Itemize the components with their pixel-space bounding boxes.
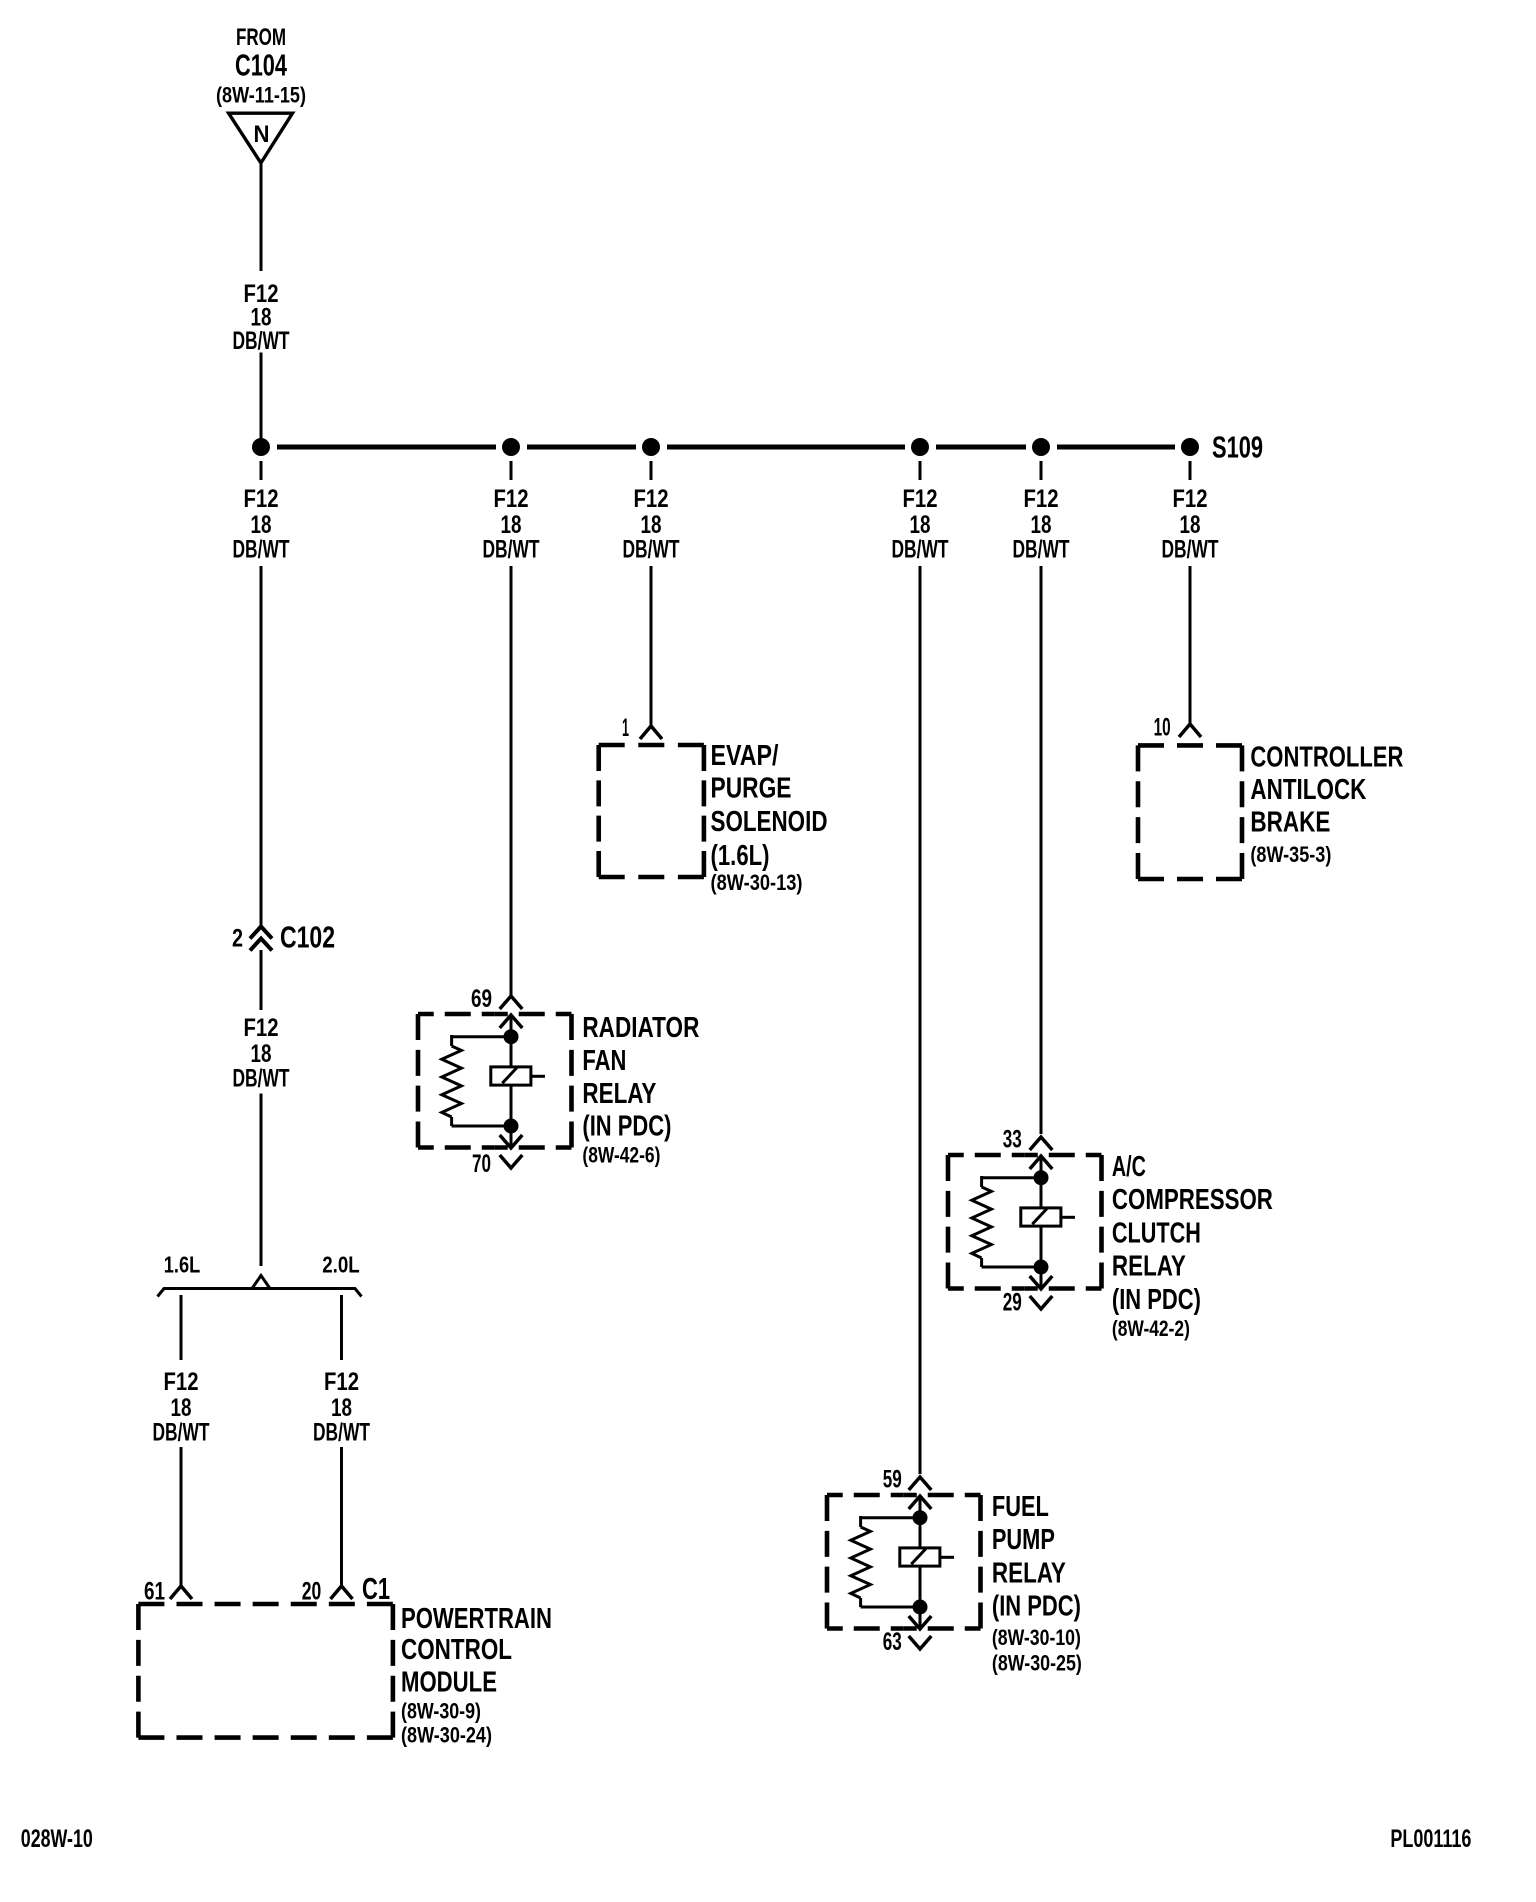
- svg-text:(8W-11-15): (8W-11-15): [216, 83, 306, 108]
- svg-text:028W-10: 028W-10: [21, 1825, 93, 1853]
- svg-text:(1.6L): (1.6L): [711, 840, 770, 872]
- fuel pump relay top junction: [913, 1510, 928, 1525]
- svg-text:61: 61: [144, 1578, 165, 1606]
- powertrain control module name: [401, 1603, 552, 1748]
- wire F12 18 DB/WT label (col3): [623, 485, 680, 564]
- svg-text:70: 70: [472, 1150, 491, 1178]
- wire stub below splice col3: [650, 461, 653, 480]
- svg-text:CONTROLLER: CONTROLLER: [1250, 742, 1403, 774]
- svg-text:20: 20: [302, 1578, 322, 1606]
- wire F12 18 DB/WT label (col4): [892, 485, 949, 564]
- fuel pump relay relay coil: [900, 1548, 954, 1566]
- svg-text:F12: F12: [903, 485, 938, 513]
- radiator fan relay resistor lower wire: [452, 1117, 511, 1126]
- svg-text:(8W-30-10): (8W-30-10): [992, 1625, 1081, 1650]
- wire stub below splice col2: [510, 461, 513, 480]
- wire F12 18 DB/WT label (C104 feed): [233, 280, 290, 355]
- svg-text:DB/WT: DB/WT: [623, 536, 680, 564]
- svg-text:F12: F12: [1024, 485, 1059, 513]
- wire 1.6L branch upper: [180, 1295, 183, 1360]
- bus wire segment 4: [936, 445, 1026, 450]
- svg-text:69: 69: [471, 985, 492, 1013]
- svg-text:CONTROL: CONTROL: [401, 1634, 512, 1666]
- a/c compressor clutch relay resistor branch wire: [982, 1176, 1041, 1187]
- svg-text:PL001116: PL001116: [1390, 1825, 1471, 1853]
- a/c compressor clutch relay resistor: [972, 1187, 992, 1258]
- powertrain control module dashed box: [138, 1604, 393, 1738]
- svg-text:DB/WT: DB/WT: [233, 1065, 290, 1093]
- svg-text:29: 29: [1003, 1289, 1022, 1317]
- wire F12 18 DB/WT label (1.6L branch): [153, 1368, 210, 1447]
- svg-text:COMPRESSOR: COMPRESSOR: [1112, 1184, 1273, 1216]
- pin 20 connector into PCM: [331, 1586, 353, 1599]
- wire col4 to fuel pump relay: [919, 566, 922, 1474]
- fuel pump relay pin wire into box: [909, 1477, 932, 1548]
- svg-text:(IN PDC): (IN PDC): [1112, 1284, 1201, 1316]
- svg-text:DB/WT: DB/WT: [313, 1419, 370, 1447]
- fuel pump relay bottom junction: [913, 1600, 928, 1615]
- wire col5 to a/c compressor clutch relay: [1040, 566, 1043, 1134]
- wire below C102: [260, 950, 263, 1010]
- radiator fan relay pin wire out of box: [500, 1126, 523, 1168]
- splice junction col2: [502, 438, 520, 456]
- svg-text:SOLENOID: SOLENOID: [711, 806, 828, 838]
- svg-text:PURGE: PURGE: [711, 773, 792, 805]
- wire col2 to radiator fan relay: [510, 566, 513, 996]
- svg-text:(8W-35-3): (8W-35-3): [1250, 842, 1331, 867]
- engine variant split brace: [158, 1276, 362, 1297]
- fuel pump relay resistor: [851, 1527, 871, 1598]
- fuel pump relay coil to lower junction wire: [919, 1566, 922, 1607]
- wire stub below splice col1: [260, 461, 263, 480]
- svg-text:F12: F12: [634, 485, 669, 513]
- wire F12 18 DB/WT label (2.0L branch): [313, 1368, 370, 1447]
- a/c compressor clutch relay name: [1112, 1151, 1273, 1341]
- svg-text:1.6L: 1.6L: [164, 1252, 201, 1278]
- svg-text:(8W-30-25): (8W-30-25): [992, 1650, 1082, 1675]
- evap/purge solenoid name: [711, 740, 828, 895]
- wire F12 18 DB/WT label (below C102): [233, 1014, 290, 1093]
- svg-text:(8W-30-13): (8W-30-13): [711, 870, 803, 895]
- wire 1.6L branch to PCM: [180, 1447, 183, 1586]
- a/c compressor clutch relay resistor lower wire: [982, 1258, 1041, 1267]
- svg-text:2: 2: [232, 924, 243, 952]
- wire 2.0L branch upper: [340, 1295, 343, 1360]
- radiator fan relay resistor: [442, 1046, 462, 1117]
- bus wire segment 5: [1057, 445, 1175, 450]
- svg-text:(IN PDC): (IN PDC): [992, 1591, 1081, 1623]
- wire col6 to controller antilock brake: [1189, 566, 1192, 724]
- svg-text:FAN: FAN: [582, 1045, 626, 1077]
- svg-text:DB/WT: DB/WT: [1013, 536, 1070, 564]
- svg-text:F12: F12: [324, 1368, 359, 1396]
- svg-text:DB/WT: DB/WT: [892, 536, 949, 564]
- a/c compressor clutch relay dashed box: [948, 1155, 1102, 1289]
- svg-text:33: 33: [1003, 1126, 1022, 1154]
- svg-text:(8W-30-24): (8W-30-24): [401, 1723, 492, 1748]
- svg-text:F12: F12: [494, 485, 529, 513]
- svg-text:2.0L: 2.0L: [322, 1252, 360, 1278]
- wire col1 to engine split: [260, 1094, 263, 1267]
- svg-text:1: 1: [622, 714, 629, 742]
- svg-text:PUMP: PUMP: [992, 1524, 1055, 1556]
- svg-text:FUEL: FUEL: [992, 1491, 1049, 1523]
- svg-text:S109: S109: [1212, 431, 1263, 465]
- wire 2.0L branch to PCM: [340, 1447, 343, 1586]
- pin 61 connector into PCM: [170, 1586, 192, 1599]
- svg-text:FROM: FROM: [236, 24, 286, 51]
- radiator fan relay bottom junction: [504, 1119, 519, 1134]
- splice junction col1: [252, 438, 270, 456]
- svg-text:F12: F12: [244, 485, 279, 513]
- svg-text:(8W-42-6): (8W-42-6): [582, 1143, 660, 1168]
- wire stub below splice col4: [919, 461, 922, 480]
- svg-text:DB/WT: DB/WT: [1162, 536, 1219, 564]
- wire: [260, 353, 263, 448]
- svg-text:59: 59: [883, 1466, 902, 1494]
- radiator fan relay resistor branch wire: [452, 1035, 511, 1046]
- svg-text:DB/WT: DB/WT: [483, 536, 540, 564]
- svg-text:10: 10: [1154, 714, 1171, 742]
- a/c compressor clutch relay coil to lower junction wire: [1040, 1226, 1043, 1267]
- svg-text:POWERTRAIN: POWERTRAIN: [401, 1603, 552, 1635]
- splice junction col4: [911, 438, 929, 456]
- radiator fan relay relay coil: [491, 1067, 545, 1085]
- controller antilock brake name: [1250, 742, 1403, 868]
- fuel pump relay dashed box: [827, 1495, 981, 1629]
- a/c compressor clutch relay pin wire into box: [1030, 1137, 1053, 1208]
- radiator fan relay top junction: [504, 1029, 519, 1044]
- svg-text:DB/WT: DB/WT: [233, 327, 290, 355]
- svg-text:63: 63: [883, 1628, 902, 1656]
- svg-text:F12: F12: [244, 1014, 279, 1042]
- a/c compressor clutch relay relay coil: [1021, 1208, 1075, 1226]
- svg-text:DB/WT: DB/WT: [153, 1419, 210, 1447]
- fuel pump relay pin wire out of box: [909, 1607, 932, 1649]
- splice junction col3: [642, 438, 660, 456]
- fuel pump relay resistor lower wire: [861, 1598, 920, 1607]
- svg-text:ANTILOCK: ANTILOCK: [1250, 774, 1366, 806]
- svg-text:RELAY: RELAY: [582, 1078, 656, 1110]
- controller antilock brake dashed box: [1138, 745, 1242, 879]
- svg-text:CLUTCH: CLUTCH: [1112, 1217, 1201, 1249]
- pin 1 connector into EVAP solenoid: [640, 726, 662, 739]
- connector C102 symbol: [250, 927, 272, 951]
- wire F12 18 DB/WT label (col5): [1013, 485, 1070, 564]
- wire F12 18 DB/WT label (col1): [233, 485, 290, 564]
- wire F12 18 DB/WT label (col6): [1162, 485, 1219, 564]
- bus wire segment 2: [527, 445, 636, 450]
- fuel pump relay resistor branch wire: [861, 1516, 920, 1527]
- radiator fan relay coil to lower junction wire: [510, 1085, 513, 1126]
- svg-text:BRAKE: BRAKE: [1250, 807, 1330, 839]
- wire from C104 to node S109: [260, 163, 263, 271]
- svg-text:A/C: A/C: [1112, 1151, 1146, 1183]
- svg-text:C102: C102: [280, 921, 335, 955]
- svg-text:RADIATOR: RADIATOR: [582, 1012, 699, 1044]
- svg-text:F12: F12: [1173, 485, 1208, 513]
- svg-text:(8W-30-9): (8W-30-9): [401, 1699, 481, 1724]
- splice junction col5: [1032, 438, 1050, 456]
- svg-text:MODULE: MODULE: [401, 1667, 497, 1699]
- svg-text:(IN PDC): (IN PDC): [582, 1111, 671, 1143]
- evap/purge solenoid dashed box: [599, 745, 704, 877]
- wire col1 to C102: [260, 566, 263, 926]
- svg-text:(8W-42-2): (8W-42-2): [1112, 1316, 1190, 1341]
- a/c compressor clutch relay bottom junction: [1034, 1260, 1049, 1275]
- svg-text:EVAP/: EVAP/: [711, 740, 779, 772]
- wire stub below splice col6: [1189, 461, 1192, 480]
- svg-text:RELAY: RELAY: [992, 1557, 1066, 1589]
- node S109 bus wire segment 1: [277, 445, 496, 450]
- fuel pump relay name: [992, 1491, 1082, 1675]
- wire F12 18 DB/WT label (col2): [483, 485, 540, 564]
- svg-text:F12: F12: [164, 1368, 199, 1396]
- svg-text:C104: C104: [235, 49, 287, 83]
- svg-text:DB/WT: DB/WT: [233, 536, 290, 564]
- svg-text:N: N: [254, 121, 270, 148]
- a/c compressor clutch relay pin wire out of box: [1030, 1267, 1053, 1309]
- radiator fan relay pin wire into box: [500, 996, 523, 1067]
- svg-text:C1: C1: [362, 1572, 390, 1606]
- connector C104 triangle symbol: [229, 113, 293, 163]
- wire stub below splice col5: [1040, 461, 1043, 480]
- a/c compressor clutch relay top junction: [1034, 1170, 1049, 1185]
- splice junction S109: [1181, 438, 1199, 456]
- radiator fan relay dashed box: [418, 1014, 572, 1148]
- pin 10 connector into controller antilock brake: [1179, 724, 1201, 737]
- bus wire segment 3: [667, 445, 905, 450]
- svg-text:RELAY: RELAY: [1112, 1251, 1186, 1283]
- wire col3 to EVAP solenoid: [650, 566, 653, 726]
- radiator fan relay name: [582, 1012, 699, 1168]
- connector C104 label FROM C104 (8W-11-15): [216, 24, 306, 108]
